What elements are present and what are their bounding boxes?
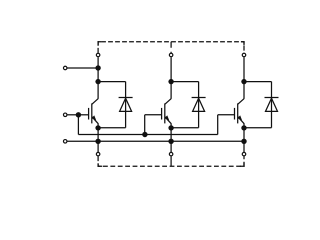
wire gate terminal to gate node (67, 114, 78, 116)
wire gate lead Q1 (78, 114, 88, 116)
wire diode anode to emitter node D2 (171, 127, 199, 129)
wire diode anode to emitter node D1 (98, 127, 126, 129)
wire collector aux terminal to node (67, 67, 98, 69)
terminal E2 (bottom) (169, 152, 173, 156)
wire to bottom terminal E2 (170, 141, 172, 152)
wire gate drop Q3 (217, 115, 219, 135)
node emitter junction Q2 (168, 125, 173, 130)
node gate junction (76, 112, 81, 117)
diode D1 (119, 97, 133, 99)
wire gate drop Q2 (144, 115, 146, 135)
wire diode cathode branch D3 (244, 81, 272, 83)
diode D2 (192, 97, 206, 99)
terminal collector aux (left) (63, 66, 67, 70)
wire diode anode to emitter node D3 (244, 127, 272, 129)
wire top bus stub C2 (dashed) (170, 42, 172, 53)
wire collector vertical Q1 (97, 57, 99, 99)
wire gate drop Q1 (77, 115, 79, 135)
wire common gate rail (78, 134, 217, 136)
terminal E1 (bottom) (96, 152, 100, 156)
wire to bottom terminal E1 (97, 141, 99, 152)
diode D3 (265, 97, 279, 99)
node collector-diode junction Q2 (168, 79, 173, 84)
terminal C2 (top) (169, 53, 173, 57)
emitter arrow Q3 (237, 115, 242, 120)
wire terminal E2 to bottom bus (170, 156, 172, 166)
wire gate lead Q3 (218, 114, 235, 116)
emitter arrow Q2 (164, 115, 169, 120)
wire gate lead Q2 (145, 114, 162, 116)
node collector aux junction (95, 65, 100, 70)
wire collector vertical Q3 (243, 57, 245, 99)
transistor Q3 (IGBT) (238, 99, 244, 105)
node gate rail junction Q2 (142, 132, 147, 137)
node emitter junction Q3 (241, 125, 246, 130)
wire emitter drop Q3 (243, 128, 245, 141)
terminal E3 (bottom) (242, 152, 246, 156)
wire emitter drop Q1 (97, 128, 99, 141)
terminal gate G (left) (63, 113, 67, 117)
emitter arrow Q1 (91, 115, 96, 120)
node collector-diode junction Q1 (95, 79, 100, 84)
node collector-diode junction Q3 (241, 79, 246, 84)
transistor Q1 (IGBT) (92, 99, 98, 105)
wire collector vertical Q2 (170, 57, 172, 99)
wire top bus corner elbows (98, 42, 101, 46)
wire bottom bus corner elbows (98, 163, 102, 166)
wire diode cathode branch D1 (98, 81, 126, 83)
node emitter rail junction 3 (241, 139, 246, 144)
wire emitter drop Q2 (170, 128, 172, 141)
transistor Q2 (IGBT) (165, 99, 171, 105)
wire diode cathode branch D2 (171, 81, 199, 83)
terminal emitter aux (left) (63, 140, 67, 144)
node emitter rail junction 1 (95, 139, 100, 144)
top collector bus (dashed external link) (98, 42, 244, 53)
node emitter junction Q1 (95, 125, 100, 130)
terminal C3 (top) (242, 53, 246, 57)
wire to bottom terminal E3 (243, 141, 245, 152)
terminal C1 (top) (96, 53, 100, 57)
wire common emitter rail (67, 140, 244, 142)
node emitter rail junction 2 (168, 139, 173, 144)
bottom emitter bus (dashed external link) (98, 156, 244, 166)
